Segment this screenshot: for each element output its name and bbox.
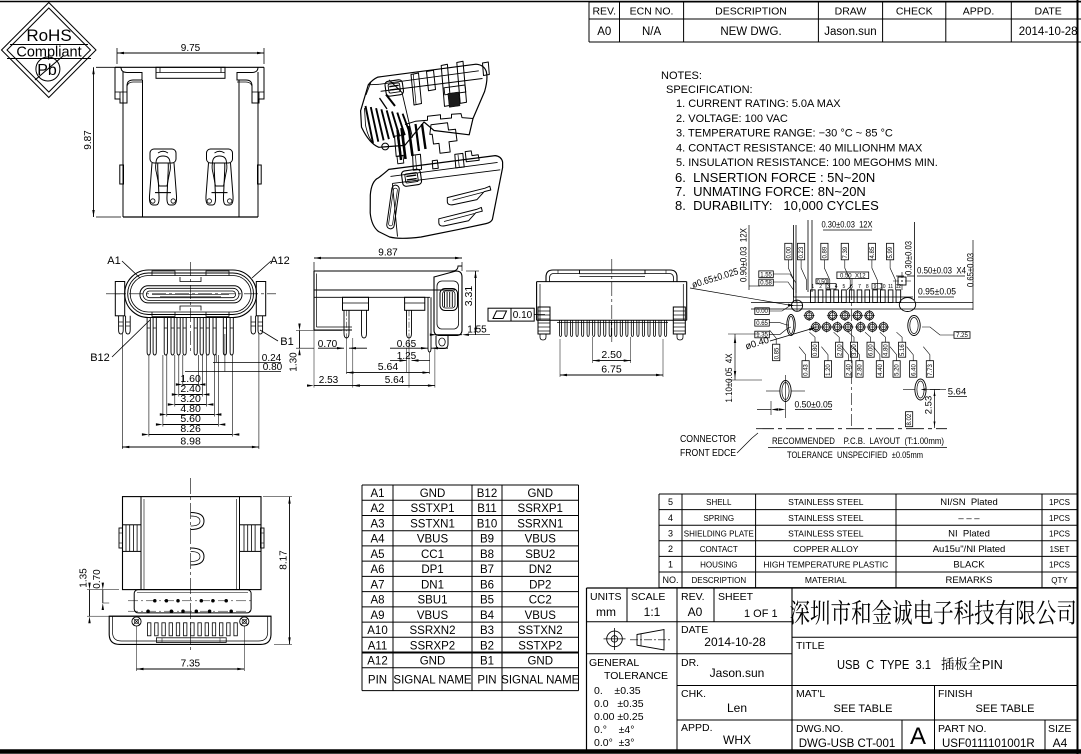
front view spring latch (206, 149, 233, 205)
svg-text:3.31: 3.31 (463, 286, 475, 307)
svg-text:A0: A0 (688, 605, 703, 619)
svg-text:A10: A10 (367, 625, 387, 637)
upper shell mouth block edge (389, 80, 413, 138)
pcb left dimension boxes (755, 271, 882, 339)
svg-text:1: 1 (811, 284, 814, 290)
pcb dimension 2.53 right (924, 390, 936, 429)
svg-text:2. VOLTAGE: 100 VAC: 2. VOLTAGE: 100 VAC (676, 113, 788, 125)
isometric view lower housing (370, 151, 502, 238)
svg-text:0.85: 0.85 (774, 347, 780, 359)
svg-text:4. CONTACT RESISTANCE: 40 MILL: 4. CONTACT RESISTANCE: 40 MILLIONHM MAX (676, 142, 923, 154)
svg-text:GND: GND (420, 488, 446, 500)
svg-text:B1: B1 (480, 656, 494, 668)
svg-text:SSTXN1: SSTXN1 (410, 518, 455, 530)
side view rear leg (405, 297, 425, 338)
front view body (115, 67, 264, 217)
svg-text:5.64: 5.64 (378, 361, 399, 373)
svg-text:A0: A0 (597, 26, 611, 38)
lower housing spring cutout 1 (447, 186, 491, 205)
svg-text:REV.: REV. (592, 6, 616, 18)
svg-text:1PCS: 1PCS (1049, 514, 1070, 523)
svg-text:A4: A4 (370, 534, 385, 546)
lower housing top band lines (391, 162, 498, 176)
dimension 5.64 upper (346, 338, 348, 374)
pcb callout 0.95 (918, 287, 956, 298)
svg-text:SSRXN2: SSRXN2 (409, 625, 455, 637)
svg-text:6.40: 6.40 (911, 364, 917, 376)
svg-text:2.53: 2.53 (924, 396, 935, 415)
svg-text:2.00: 2.00 (837, 344, 843, 356)
svg-text:A1: A1 (370, 488, 384, 500)
svg-text:CC1: CC1 (421, 549, 444, 561)
svg-text:SHIELDING PLATE: SHIELDING PLATE (684, 529, 754, 538)
svg-text:0.00: 0.00 (756, 309, 768, 315)
dimension 9.87 vertical (96, 66, 121, 68)
RoHS compliant logo (2, 3, 97, 98)
flatness callout 0.10 (488, 308, 545, 321)
svg-text:4: 4 (668, 513, 673, 523)
svg-text:DP1: DP1 (421, 564, 443, 576)
svg-text:A11: A11 (368, 640, 388, 652)
pcb X4 square pad (893, 272, 911, 290)
svg-text:0.80: 0.80 (813, 344, 819, 356)
dimension 1.30 (296, 330, 342, 332)
svg-text:SEE TABLE: SEE TABLE (834, 703, 893, 715)
rear view body (537, 282, 687, 321)
svg-text:A8: A8 (370, 595, 384, 607)
svg-text:0.30±0.03 12X: 0.30±0.03 12X (822, 220, 873, 230)
svg-text:0.95±0.05: 0.95±0.05 (918, 287, 956, 298)
svg-text:STAINLESS STEEL: STAINLESS STEEL (788, 528, 864, 538)
svg-text:B12: B12 (90, 352, 110, 364)
company name (790, 600, 1075, 625)
svg-text:DWG-USB CT-001: DWG-USB CT-001 (799, 738, 896, 750)
svg-text:0.50 X12: 0.50 X12 (840, 273, 866, 279)
svg-text:1.35: 1.35 (79, 568, 90, 588)
svg-text:A2: A2 (370, 503, 384, 515)
svg-text:1PCS: 1PCS (1049, 561, 1070, 570)
svg-text:DN2: DN2 (529, 564, 552, 576)
top view base (109, 616, 271, 644)
side view front leg (343, 297, 369, 338)
svg-text:mm: mm (596, 605, 616, 619)
svg-text:SSRXN1: SSRXN1 (517, 518, 563, 530)
title block (587, 588, 1078, 752)
svg-text:TITLE: TITLE (796, 640, 825, 652)
svg-text:1 OF 1: 1 OF 1 (744, 608, 778, 620)
svg-text:NO.: NO. (662, 575, 678, 585)
svg-text:5.16: 5.16 (900, 344, 906, 356)
svg-text:5: 5 (668, 497, 673, 507)
bill of materials table (659, 494, 1077, 588)
svg-text:SPRING: SPRING (703, 514, 734, 523)
top view of connector (79, 478, 293, 671)
dimension 5.64 lower (408, 338, 410, 388)
svg-text:B6: B6 (480, 579, 494, 591)
svg-text:9.87: 9.87 (378, 248, 398, 259)
svg-text:SBU2: SBU2 (525, 549, 555, 561)
svg-text:RoHS: RoHS (26, 26, 71, 45)
projection symbol (604, 628, 671, 650)
rear view centerline (611, 259, 613, 345)
pcb callout 1.10 4X (724, 334, 762, 403)
svg-text:7.35: 7.35 (181, 659, 201, 670)
svg-text:B7: B7 (480, 564, 494, 576)
svg-text:B4: B4 (480, 610, 495, 622)
rear view of connector (488, 259, 687, 377)
svg-text:FINISH: FINISH (938, 688, 972, 700)
svg-text:9.75: 9.75 (181, 43, 201, 54)
side view body (314, 271, 456, 330)
svg-text:1: 1 (668, 560, 673, 570)
dimension 3.20 (174, 355, 176, 407)
svg-text:CC2: CC2 (529, 595, 552, 607)
svg-text:0.00 ±0.25: 0.00 ±0.25 (594, 711, 644, 723)
upper shell left legs (382, 135, 405, 164)
rear view pins (557, 320, 668, 336)
front view of connector (83, 43, 264, 217)
svg-text:B12: B12 (477, 488, 497, 500)
pcb front edge label (680, 433, 758, 459)
svg-text:DP2: DP2 (529, 579, 551, 591)
svg-text:0.23: 0.23 (799, 246, 805, 258)
general tolerance cell (589, 657, 668, 749)
svg-text:HIGH TEMPERATURE PLASTIC: HIGH TEMPERATURE PLASTIC (763, 560, 888, 570)
svg-text:UNITS: UNITS (590, 591, 622, 603)
lower housing spring cutout 2 (439, 207, 483, 226)
dimension 5.60 (162, 355, 164, 427)
pcb callout phi 0.65 (690, 266, 795, 306)
svg-text:5.99: 5.99 (888, 246, 894, 258)
pcb callout 0.50 bottom (757, 400, 833, 419)
svg-text:CONTACT: CONTACT (700, 545, 738, 554)
svg-text:SEE TABLE: SEE TABLE (976, 703, 1035, 715)
top view right wing (240, 525, 265, 552)
svg-text:APPD.: APPD. (963, 6, 995, 18)
svg-text:8.98: 8.98 (180, 436, 201, 448)
pcb left hole pad phi0.65 (791, 300, 803, 312)
upper shell contact pins hatch (398, 124, 426, 160)
page right border (1077, 0, 1079, 754)
svg-text:QTY: QTY (1051, 576, 1068, 585)
top view left wing (119, 525, 141, 552)
svg-text:5. INSULATION RESISTANCE: 100: 5. INSULATION RESISTANCE: 100 MEGOHMS MI… (676, 157, 938, 169)
pcb callout 0.30 12X top (822, 220, 873, 231)
svg-text:GND: GND (527, 488, 553, 500)
svg-text:SSRXP1: SSRXP1 (518, 503, 563, 515)
dimension 9.87 side (313, 262, 315, 271)
svg-text:0.0 ±0.35: 0.0 ±0.35 (594, 698, 644, 710)
svg-text:MATERIAL: MATERIAL (805, 575, 847, 585)
svg-text:6.75: 6.75 (601, 364, 622, 376)
dimension 6.75 (559, 339, 561, 377)
svg-text:7.25: 7.25 (956, 333, 968, 339)
svg-text:A7: A7 (370, 579, 384, 591)
svg-text:1PCS: 1PCS (1049, 498, 1070, 507)
svg-text:2014-10-28: 2014-10-28 (1019, 26, 1078, 38)
svg-text:ECN NO.: ECN NO. (630, 6, 674, 18)
svg-text:BLACK: BLACK (953, 560, 985, 571)
dimension 0.24 (215, 318, 217, 363)
svg-text:PIN: PIN (368, 674, 387, 686)
svg-text:A: A (910, 723, 926, 750)
lower housing top posts (413, 151, 480, 170)
svg-text:4.40: 4.40 (878, 364, 884, 376)
dimension 4.80 (166, 355, 168, 417)
svg-text:TOLERANCE: TOLERANCE (604, 670, 668, 682)
svg-text:SSTXP1: SSTXP1 (410, 503, 454, 515)
svg-text:Pb: Pb (37, 62, 57, 79)
upper shell T leg (430, 123, 457, 153)
notes specification text (661, 70, 938, 213)
svg-text:8. DURABILITY: 10,000 CYCLE: 8. DURABILITY: 10,000 CYCLES (675, 198, 879, 213)
svg-text:B10: B10 (477, 518, 497, 530)
svg-text:1:1: 1:1 (644, 605, 661, 619)
svg-text:Len: Len (727, 701, 747, 715)
svg-text:MAT'L: MAT'L (796, 688, 825, 700)
svg-text:1.10±0.05 4X: 1.10±0.05 4X (724, 354, 734, 403)
svg-text:0.00: 0.00 (787, 246, 793, 258)
svg-text:STAINLESS STEEL: STAINLESS STEEL (788, 513, 864, 523)
svg-text:A12: A12 (367, 656, 387, 668)
svg-text:4.85: 4.85 (870, 246, 876, 258)
svg-text:8.26: 8.26 (180, 423, 201, 435)
svg-text:B11: B11 (477, 503, 497, 515)
dimension 7.35 (136, 626, 138, 671)
dimension 8.17 (263, 496, 292, 498)
svg-text:1.20: 1.20 (826, 364, 832, 376)
dimension 2.53 (313, 330, 315, 388)
svg-text:0.° ±4°: 0.° ±4° (594, 724, 634, 736)
dimension 9.75 horizontal (116, 48, 118, 64)
svg-text:DATE: DATE (1035, 6, 1062, 18)
svg-text:2: 2 (668, 544, 673, 554)
pcb centerline (851, 288, 853, 428)
svg-text:REMARKS: REMARKS (946, 575, 993, 586)
svg-text:3. TEMPERATURE RANGE: −30 °C ~: 3. TEMPERATURE RANGE: −30 °C ~ 85 °C (676, 128, 893, 140)
upper shell top band lines (379, 71, 479, 85)
svg-text:0.30±0.03: 0.30±0.03 (904, 241, 914, 275)
svg-text:VBUS: VBUS (417, 610, 449, 622)
svg-text:SPECIFICATION:: SPECIFICATION: (666, 84, 753, 96)
svg-text:7: 7 (858, 284, 861, 290)
dimension 0.70 top view (102, 590, 104, 603)
svg-text:CHECK: CHECK (896, 6, 933, 18)
svg-text:0.10: 0.10 (513, 310, 533, 321)
bottom view shell (106, 262, 276, 352)
svg-text:PIN: PIN (982, 658, 1003, 672)
svg-text:5.64: 5.64 (385, 375, 405, 386)
svg-text:CONNECTOR: CONNECTOR (680, 434, 736, 445)
svg-text:1SET: 1SET (1049, 545, 1069, 554)
svg-text:B8: B8 (480, 549, 494, 561)
svg-text:VBUS: VBUS (417, 534, 449, 546)
svg-text:PART NO.: PART NO. (938, 723, 986, 735)
svg-text:DWG.NO.: DWG.NO. (796, 723, 843, 735)
svg-text:7.73: 7.73 (928, 364, 934, 376)
svg-text:DN1: DN1 (421, 579, 444, 591)
svg-text:1. CURRENT RATING: 5.0A MAX: 1. CURRENT RATING: 5.0A MAX (676, 98, 841, 110)
side view bracket foot (436, 336, 448, 349)
svg-text:7.39: 7.39 (843, 246, 849, 258)
svg-text:1.55: 1.55 (760, 272, 772, 278)
svg-text:VBUS: VBUS (525, 534, 557, 546)
svg-text:SIZE: SIZE (1048, 723, 1071, 735)
svg-text:5.20: 5.20 (895, 364, 901, 376)
svg-text:0.0° ±3°: 0.0° ±3° (594, 737, 634, 749)
svg-text:Jason.sun: Jason.sun (710, 666, 765, 680)
pin assignment table (362, 485, 580, 691)
svg-text:Au15u"/NI Plated: Au15u"/NI Plated (933, 544, 1006, 555)
bottom view of connector (90, 255, 294, 449)
svg-text:1PCS: 1PCS (1049, 529, 1070, 538)
svg-text:1.55: 1.55 (467, 325, 487, 336)
lower housing outline (370, 156, 502, 239)
svg-text:SCALE: SCALE (631, 591, 665, 603)
svg-text:8.17: 8.17 (279, 550, 290, 570)
svg-text:Jason.sun: Jason.sun (824, 26, 876, 38)
svg-text:SSTXN2: SSTXN2 (518, 625, 563, 637)
upper shell H clip (441, 61, 489, 107)
rear view shell top (546, 270, 677, 282)
svg-text:VBUS: VBUS (525, 610, 557, 622)
svg-text:2014-10-28: 2014-10-28 (704, 635, 766, 649)
page top border (0, 1, 1081, 3)
svg-text:B5: B5 (480, 595, 494, 607)
dimension 8.98 (121, 334, 123, 449)
svg-text:COPPER ALLOY: COPPER ALLOY (793, 544, 859, 554)
upper shell contact hatch (366, 95, 411, 144)
pcb through hole pads row A (804, 310, 875, 321)
pcb callout 0.65 right (966, 240, 976, 310)
svg-text:9.87: 9.87 (83, 130, 94, 150)
svg-text:2.50: 2.50 (601, 349, 622, 361)
upper shell outline (361, 64, 487, 147)
svg-text:SHELL: SHELL (706, 498, 732, 507)
svg-text:PIN: PIN (477, 674, 496, 686)
dimension 1.55 (437, 334, 462, 336)
svg-text:11: 11 (888, 284, 893, 290)
svg-text:GND: GND (420, 656, 446, 668)
pcb callout phi 0.40 (744, 328, 816, 353)
upper latch window (385, 79, 404, 96)
pcb top dimension boxes (785, 243, 896, 290)
top view centerline (190, 478, 192, 650)
svg-text:SIGNAL NAME: SIGNAL NAME (501, 674, 580, 686)
rear view right bracket (673, 307, 685, 340)
lower housing left slot (386, 185, 399, 230)
upper shell middle clip (411, 70, 436, 105)
svg-text:GND: GND (527, 656, 553, 668)
dimension 1.35 top view (87, 589, 119, 591)
svg-text:RECOMMENDED P.C.B. LAYOUT: RECOMMENDED P.C.B. LAYOUT (T:1.00mm) (772, 436, 944, 446)
pcb layout caption (768, 436, 947, 461)
pcb connector front edge line (756, 428, 947, 430)
svg-text:6. LNSERTION FORCE : 5N~20N: 6. LNSERTION FORCE : 5N~20N (675, 170, 875, 185)
pcb callout 0.90 12X (739, 225, 761, 290)
side view rear bracket (434, 266, 462, 336)
page bottom border (0, 749, 1081, 754)
svg-text:– – –: – – – (958, 513, 980, 524)
svg-text:USB C TYPE 3.1: USB C TYPE 3.1 (837, 658, 931, 672)
dimension 0.80 (224, 334, 226, 372)
svg-text:N/A: N/A (642, 26, 662, 38)
svg-text:DRAW: DRAW (835, 6, 867, 18)
svg-text:A9: A9 (370, 610, 384, 622)
svg-text:DESCRIPTION: DESCRIPTION (715, 6, 787, 18)
svg-text:SSRXP2: SSRXP2 (410, 640, 455, 652)
svg-text:1.30: 1.30 (289, 352, 300, 372)
svg-text:FRONT EDCE: FRONT EDCE (680, 448, 736, 459)
svg-text:B2: B2 (480, 640, 494, 652)
pcb bottom dimension boxes (770, 327, 970, 427)
svg-text:A6: A6 (370, 564, 384, 576)
pcb smt pads (811, 284, 902, 303)
svg-text:NI Plated: NI Plated (948, 528, 990, 539)
svg-text:2.53: 2.53 (319, 375, 339, 386)
title cell (796, 640, 1003, 672)
svg-text:0.58: 0.58 (760, 281, 772, 287)
svg-text:STAINLESS STEEL: STAINLESS STEEL (788, 497, 864, 507)
svg-text:0.50±0.05: 0.50±0.05 (795, 400, 833, 411)
svg-text:USF0111101001R: USF0111101001R (942, 738, 1035, 750)
svg-text:HOUSING: HOUSING (700, 561, 737, 570)
svg-text:SIGNAL NAME: SIGNAL NAME (393, 674, 472, 686)
svg-text:REV.: REV. (681, 591, 705, 603)
svg-text:2.80: 2.80 (858, 364, 864, 376)
svg-text:TOLERANCE UNSPECIFIED ±0.05m: TOLERANCE UNSPECIFIED ±0.05mm (787, 450, 923, 461)
side view contact pin (428, 297, 431, 352)
svg-text:0.70: 0.70 (92, 569, 103, 589)
svg-text:NOTES:: NOTES: (661, 70, 702, 82)
svg-text:A4: A4 (1053, 736, 1068, 750)
pcb callout 0.50 X4 (896, 266, 966, 277)
dimension 3.31 (466, 270, 479, 272)
dimension 8.26 (148, 355, 150, 437)
svg-text:3: 3 (668, 528, 673, 538)
svg-text:DR.: DR. (681, 657, 699, 669)
svg-text:NI/SN Plated: NI/SN Plated (940, 497, 998, 508)
recommended PCB layout (680, 220, 976, 462)
rear view left bracket (538, 307, 550, 340)
svg-text:SSTXP2: SSTXP2 (518, 640, 562, 652)
svg-text:0.89: 0.89 (823, 246, 829, 258)
svg-text:0. ±0.35: 0. ±0.35 (594, 685, 641, 697)
dimension 2.50 (592, 337, 594, 363)
lower latch window (401, 169, 422, 187)
upper shell seam line (405, 114, 473, 125)
front view spring latch (149, 149, 176, 205)
svg-text:0.65±0.03: 0.65±0.03 (966, 253, 976, 287)
pcb reference lines (793, 225, 795, 302)
svg-text:0.90±0.03 12X: 0.90±0.03 12X (739, 228, 749, 282)
svg-text:SHEET: SHEET (718, 591, 754, 603)
svg-text:B3: B3 (480, 625, 494, 637)
title block grid (587, 588, 1078, 752)
svg-text:0.50±0.03 X4: 0.50±0.03 X4 (917, 266, 966, 277)
svg-text:0.65: 0.65 (756, 321, 768, 327)
side view of connector (289, 248, 491, 388)
svg-text:NEW DWG.: NEW DWG. (720, 26, 781, 38)
svg-text:8.02: 8.02 (907, 413, 913, 425)
svg-text:WHX: WHX (723, 733, 751, 747)
svg-text:A5: A5 (370, 549, 384, 561)
svg-text:DESCRIPTION: DESCRIPTION (691, 576, 746, 585)
svg-text:5.64: 5.64 (948, 387, 967, 398)
pcb oval pads (766, 298, 940, 407)
svg-text:5: 5 (843, 284, 846, 290)
svg-text:8: 8 (866, 284, 869, 290)
